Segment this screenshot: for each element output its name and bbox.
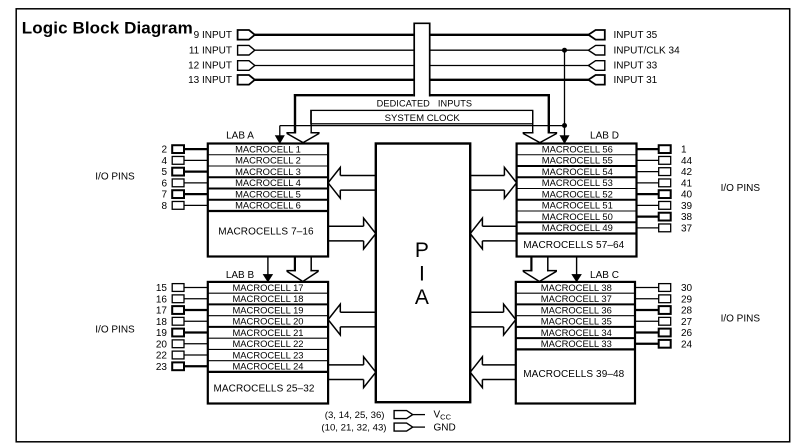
svg-text:29: 29	[681, 294, 693, 305]
svg-text:27: 27	[681, 317, 693, 328]
I/O pin 30 (LAB C)	[635, 287, 659, 289]
svg-text:17: 17	[156, 306, 168, 317]
svg-text:MACROCELLS 25–32: MACROCELLS 25–32	[213, 383, 314, 394]
I/O pin 38 (LAB D)	[637, 216, 659, 218]
I/O pin 37 (LAB D)	[637, 227, 659, 229]
svg-text:I/O PINS: I/O PINS	[721, 314, 761, 325]
PIA box	[376, 144, 470, 403]
I/O pin 39 (LAB D)	[637, 204, 659, 206]
svg-text:MACROCELL 33: MACROCELL 33	[541, 338, 612, 349]
LAB D box	[517, 144, 637, 257]
svg-text:6: 6	[161, 178, 167, 189]
hollow arrow: PIA to LAB C	[470, 304, 516, 335]
LAB A macrocell row separators	[208, 155, 328, 211]
I/O pin 27 (LAB C)	[635, 320, 659, 322]
input buffer 13 INPUT (left)	[238, 75, 255, 85]
wire: DEDICATED INPUTS channel top (right part)	[431, 94, 550, 96]
svg-text:22: 22	[156, 351, 168, 362]
svg-text:11 INPUT: 11 INPUT	[189, 45, 232, 56]
I/O pin 28 (LAB C)	[635, 309, 659, 311]
svg-text:39: 39	[681, 201, 693, 212]
hollow arrow: PIA to LAB B	[328, 304, 376, 335]
svg-text:INPUT 35: INPUT 35	[614, 30, 658, 41]
LAB D macrocell row separators	[517, 155, 637, 234]
input buffer INPUT 35 (right)	[588, 30, 604, 40]
I/O pin 44 (LAB D)	[637, 159, 659, 161]
wire: clock vertical from INPUT/CLK 34 down to LAB D	[564, 50, 566, 136]
wire: input line 9	[255, 34, 589, 36]
filled arrow: clock into LAB B	[263, 274, 272, 281]
input buffer 9 INPUT (left)	[238, 30, 255, 40]
svg-text:MACROCELLS 57–64: MACROCELLS 57–64	[523, 240, 624, 251]
LAB B macrocell row labels	[232, 282, 303, 372]
SYSTEM CLOCK channel box	[311, 110, 533, 123]
svg-text:(10, 21, 32, 43): (10, 21, 32, 43)	[321, 423, 386, 434]
hollow arrow: LAB D to PIA	[470, 218, 516, 249]
junction dot on clock rail	[562, 123, 567, 128]
svg-text:MACROCELL 1: MACROCELL 1	[235, 143, 301, 154]
svg-text:8: 8	[161, 201, 167, 212]
wire: VCC stub	[413, 414, 425, 416]
svg-text:MACROCELLS 7–16: MACROCELLS 7–16	[218, 227, 314, 238]
LAB C macrocell row separators	[516, 293, 635, 349]
svg-text:I/O PINS: I/O PINS	[95, 325, 135, 336]
hollow arrow: LAB A into LAB B	[286, 257, 318, 282]
svg-text:18: 18	[156, 317, 168, 328]
svg-text:SYSTEM CLOCK: SYSTEM CLOCK	[385, 113, 461, 124]
LAB D macrocell row labels	[542, 143, 613, 233]
power buffer GND	[394, 423, 413, 431]
svg-text:MACROCELL 35: MACROCELL 35	[541, 316, 612, 327]
svg-text:24: 24	[681, 339, 693, 350]
svg-text:23: 23	[156, 362, 168, 373]
svg-text:MACROCELL 38: MACROCELL 38	[541, 282, 612, 293]
svg-text:MACROCELL 56: MACROCELL 56	[542, 143, 613, 154]
svg-text:30: 30	[681, 283, 693, 294]
LAB C box	[516, 282, 635, 404]
hollow arrow: PIA to LAB D	[470, 167, 516, 198]
svg-text:15: 15	[156, 283, 168, 294]
svg-text:41: 41	[681, 178, 693, 189]
svg-text:INPUT 31: INPUT 31	[614, 75, 658, 86]
svg-text:INPUT 33: INPUT 33	[614, 61, 658, 72]
svg-text:MACROCELL 49: MACROCELL 49	[542, 222, 613, 233]
svg-text:12 INPUT: 12 INPUT	[188, 61, 232, 72]
svg-text:I/O PINS: I/O PINS	[721, 183, 761, 194]
svg-text:5: 5	[161, 167, 167, 178]
filled arrow: clock into LAB C	[572, 274, 581, 281]
svg-text:INPUT/CLK 34: INPUT/CLK 34	[614, 45, 681, 56]
svg-text:A: A	[415, 286, 429, 309]
svg-text:MACROCELL 51: MACROCELL 51	[542, 200, 613, 211]
svg-text:4: 4	[161, 156, 167, 167]
svg-text:GND: GND	[434, 423, 456, 434]
svg-text:MACROCELL 21: MACROCELL 21	[232, 327, 303, 338]
svg-text:20: 20	[156, 339, 168, 350]
wire: clock rail	[280, 125, 565, 127]
LAB B macrocell row separators	[208, 293, 328, 372]
svg-text:I: I	[419, 262, 425, 285]
filled arrow: clock into LAB A	[275, 136, 284, 144]
wire: input line 11	[255, 49, 589, 51]
svg-text:MACROCELL 19: MACROCELL 19	[232, 304, 303, 315]
power buffer VCC	[394, 411, 413, 419]
svg-text:28: 28	[681, 306, 693, 317]
hollow arrow: PIA to LAB A	[328, 167, 376, 198]
svg-text:2: 2	[161, 145, 167, 156]
I/O pin 26 (LAB C)	[635, 331, 659, 333]
svg-text:44: 44	[681, 156, 693, 167]
svg-text:37: 37	[681, 223, 693, 234]
wire: input line 12	[255, 65, 589, 67]
svg-text:MACROCELL 22: MACROCELL 22	[232, 338, 303, 349]
input buffer INPUT 33 (right)	[588, 61, 604, 71]
svg-text:MACROCELLS 39–48: MACROCELLS 39–48	[523, 369, 624, 380]
I/O pin 1 (LAB D)	[637, 148, 659, 150]
svg-text:26: 26	[681, 328, 693, 339]
svg-text:MACROCELL 17: MACROCELL 17	[232, 282, 303, 293]
svg-text:38: 38	[681, 212, 693, 223]
I/O pin 29 (LAB C)	[635, 298, 659, 300]
I/O pin 42 (LAB D)	[637, 171, 659, 173]
wire: GND stub	[413, 426, 425, 428]
wire: input line 13	[255, 79, 589, 81]
hollow arrow: dedicated inputs into LAB A	[286, 94, 319, 143]
svg-text:I/O PINS: I/O PINS	[95, 172, 135, 183]
svg-text:19: 19	[156, 328, 168, 339]
svg-text:MACROCELL 34: MACROCELL 34	[541, 327, 612, 338]
svg-text:MACROCELL 52: MACROCELL 52	[542, 188, 613, 199]
svg-text:16: 16	[156, 294, 168, 305]
svg-text:MACROCELL 20: MACROCELL 20	[232, 316, 303, 327]
I/O pin 40 (LAB D)	[637, 193, 659, 195]
svg-text:MACROCELL 2: MACROCELL 2	[235, 155, 301, 166]
svg-text:7: 7	[161, 190, 167, 201]
svg-text:LAB A: LAB A	[226, 131, 254, 142]
wire: clock drop into LAB B	[267, 257, 269, 277]
hollow arrow: LAB A to PIA	[328, 218, 376, 249]
svg-text:MACROCELL 6: MACROCELL 6	[235, 200, 301, 211]
input buffer 11 INPUT (left)	[238, 45, 255, 55]
svg-text:Logic Block Diagram: Logic Block Diagram	[22, 18, 193, 37]
svg-text:40: 40	[681, 190, 693, 201]
svg-text:MACROCELL 24: MACROCELL 24	[232, 361, 303, 372]
svg-text:9 INPUT: 9 INPUT	[194, 30, 232, 41]
svg-text:LAB C: LAB C	[590, 270, 619, 281]
svg-text:P: P	[415, 239, 429, 262]
svg-text:MACROCELL 3: MACROCELL 3	[235, 166, 301, 177]
wire: clock drop into LAB C	[576, 257, 578, 277]
LAB A box	[208, 144, 328, 257]
input buffer INPUT 31 (right)	[588, 75, 604, 85]
svg-text:LAB B: LAB B	[226, 270, 255, 281]
dedicated inputs vertical bus	[414, 23, 430, 96]
svg-text:(3, 14, 25, 36): (3, 14, 25, 36)	[325, 410, 385, 421]
svg-text:DEDICATED INPUTS: DEDICATED INPUTS	[377, 98, 473, 108]
filled arrow: clock into LAB D	[560, 136, 569, 144]
junction dot on INPUT/CLK 34 line	[562, 48, 567, 53]
svg-text:MACROCELL 37: MACROCELL 37	[541, 293, 612, 304]
wire: DEDICATED INPUTS channel top (left part)	[294, 94, 414, 96]
svg-text:MACROCELL 50: MACROCELL 50	[542, 211, 613, 222]
hollow arrow: LAB D into LAB C	[523, 257, 557, 282]
svg-text:LAB D: LAB D	[590, 131, 619, 142]
I/O pin 41 (LAB D)	[637, 182, 659, 184]
svg-text:MACROCELL 5: MACROCELL 5	[235, 188, 301, 199]
svg-text:MACROCELL 23: MACROCELL 23	[232, 349, 303, 360]
svg-text:1: 1	[681, 145, 687, 156]
svg-text:MACROCELL 55: MACROCELL 55	[542, 155, 613, 166]
hollow arrow: LAB B to PIA	[328, 357, 376, 388]
LAB A macrocell row labels	[235, 143, 301, 210]
input buffer INPUT/CLK 34 (right)	[588, 45, 604, 55]
hollow arrow: dedicated inputs into LAB D	[523, 94, 558, 143]
wire: clock drop into LAB A	[279, 126, 281, 137]
I/O pin 24 (LAB C)	[635, 343, 659, 345]
svg-text:MACROCELL 53: MACROCELL 53	[542, 177, 613, 188]
svg-text:MACROCELL 36: MACROCELL 36	[541, 304, 612, 315]
input buffer 12 INPUT (left)	[238, 61, 255, 71]
hollow arrow: LAB C to PIA	[470, 357, 516, 388]
svg-text:MACROCELL 54: MACROCELL 54	[542, 166, 613, 177]
svg-text:MACROCELL 18: MACROCELL 18	[232, 293, 303, 304]
LAB B box	[208, 282, 328, 404]
svg-text:13 INPUT: 13 INPUT	[188, 75, 232, 86]
svg-text:42: 42	[681, 167, 693, 178]
LAB C macrocell row labels	[541, 282, 612, 349]
svg-text:MACROCELL 4: MACROCELL 4	[235, 177, 301, 188]
